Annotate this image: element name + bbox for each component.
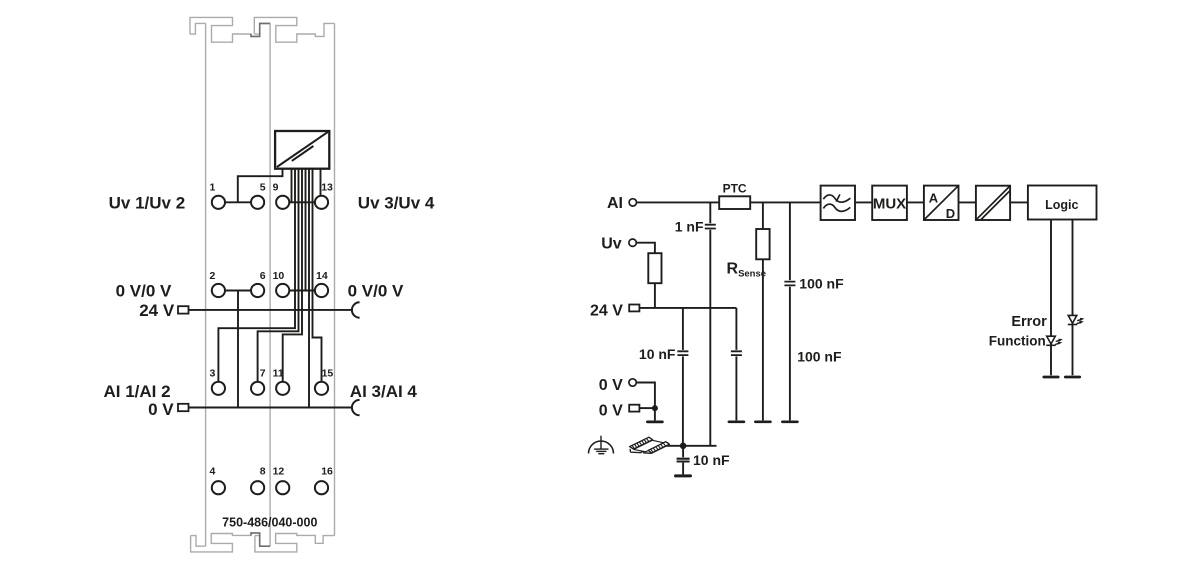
24V rail wire bbox=[189, 309, 352, 311]
svg-text:1: 1 bbox=[210, 182, 216, 194]
terminal 6 bbox=[251, 284, 264, 297]
wire earth junction to 10nF two bbox=[682, 446, 684, 457]
isolation box bbox=[976, 186, 1010, 220]
svg-text:12: 12 bbox=[273, 466, 285, 478]
node 1nF tap bbox=[709, 202, 711, 223]
svg-text:Uv 3/Uv 4: Uv 3/Uv 4 bbox=[358, 193, 435, 212]
wire terminal 9 to terminal 13 bbox=[290, 201, 315, 203]
svg-text:Uv: Uv bbox=[601, 236, 622, 253]
AD converter box bbox=[924, 186, 959, 220]
24V square terminal bbox=[178, 306, 189, 313]
isolation diagonal two bbox=[981, 191, 1010, 220]
terminal 5 bbox=[251, 196, 264, 209]
module housing left vertical edge bbox=[205, 23, 207, 546]
module housing right vertical edge bbox=[334, 23, 336, 535]
resistor R-Sense bbox=[756, 229, 769, 259]
module housing bottom profile left half bbox=[191, 533, 271, 552]
svg-text:100 nF: 100 nF bbox=[797, 349, 842, 365]
terminal 13 bbox=[315, 196, 328, 209]
terminal 14 bbox=[315, 284, 328, 297]
terminal 15 bbox=[315, 382, 328, 395]
ground bar 100nF two bbox=[729, 420, 744, 423]
0V bus continuation arc bbox=[352, 400, 360, 415]
wire Logic to Error LED bbox=[1072, 220, 1074, 376]
terminal 4 bbox=[212, 481, 225, 494]
terminal 3 bbox=[212, 382, 225, 395]
svg-text:AI 3/AI 4: AI 3/AI 4 bbox=[350, 382, 418, 401]
svg-text:15: 15 bbox=[322, 367, 334, 379]
terminal 2 bbox=[212, 284, 225, 297]
wire terminal 2 to terminal 6 bbox=[225, 290, 251, 292]
terminal 9 bbox=[276, 196, 289, 209]
Logic box bbox=[1028, 186, 1097, 220]
svg-text:Function: Function bbox=[989, 333, 1046, 348]
wire terminal 1 to terminal 5 bbox=[225, 201, 251, 203]
svg-text:D: D bbox=[946, 206, 955, 221]
wire 0V junction to ground bbox=[654, 408, 656, 420]
wire bundle line L6 to 0V rail bbox=[308, 169, 310, 408]
resistor R Uv bbox=[648, 253, 661, 283]
wire resistor to 24V rail bbox=[654, 283, 656, 308]
module housing middle vertical edge bbox=[269, 23, 271, 546]
terminal 7 bbox=[251, 382, 264, 395]
ground bar 0V bbox=[647, 421, 662, 424]
ground bar Error LED bbox=[1065, 376, 1079, 379]
terminal 12 bbox=[276, 481, 289, 494]
terminal 10 bbox=[276, 284, 289, 297]
wire PTC to filter bbox=[750, 201, 820, 203]
wire bundle line L5 to 0V row bbox=[305, 169, 307, 291]
svg-text:8: 8 bbox=[260, 466, 266, 478]
svg-text:0 V: 0 V bbox=[599, 403, 623, 420]
filter wave upper bbox=[823, 195, 850, 202]
functional earth symbol bbox=[589, 436, 614, 454]
svg-text:750-486/040-000: 750-486/040-000 bbox=[222, 516, 317, 530]
svg-text:AI: AI bbox=[607, 195, 623, 212]
24V bus continuation arc bbox=[352, 302, 360, 317]
capacitor 10 nF two plates bbox=[677, 459, 690, 462]
0V square terminal schematic bbox=[629, 405, 639, 412]
svg-text:Logic: Logic bbox=[1045, 198, 1078, 212]
wire bundle line L3 to terminal 7 bbox=[258, 169, 299, 382]
svg-text:24 V: 24 V bbox=[590, 302, 623, 319]
wire 10nF to junction bbox=[682, 356, 684, 445]
0V rail wire bbox=[189, 407, 352, 409]
24V square terminal schematic bbox=[629, 305, 639, 312]
terminal 11 bbox=[276, 382, 289, 395]
junction node 0V bbox=[652, 405, 658, 411]
module housing top profile right half bbox=[254, 17, 334, 42]
junction node earth bbox=[680, 443, 687, 450]
svg-text:2: 2 bbox=[210, 270, 216, 282]
svg-text:14: 14 bbox=[316, 270, 328, 282]
wire bundle line L4 to terminal 11 bbox=[283, 169, 302, 382]
AI input terminal circle bbox=[629, 199, 636, 206]
svg-text:5: 5 bbox=[260, 182, 266, 194]
isolation diagonal one bbox=[977, 187, 1010, 220]
capacitor 10 nF plates bbox=[677, 351, 688, 355]
wire 100nF branch one bbox=[789, 202, 791, 280]
wire 100nF two to ground bbox=[735, 356, 737, 420]
svg-text:100 nF: 100 nF bbox=[799, 276, 844, 292]
terminal 16 bbox=[315, 481, 328, 494]
wire terminal 10 to terminal 14 bbox=[290, 290, 315, 292]
terminal 1 bbox=[212, 196, 225, 209]
wire 10nF branch bbox=[682, 308, 684, 350]
svg-text:MUX: MUX bbox=[873, 195, 906, 212]
DIN rail symbol bbox=[630, 437, 670, 453]
wire 10nF two to ground bbox=[682, 463, 684, 475]
svg-text:16: 16 bbox=[321, 466, 333, 478]
filter wave lower bbox=[823, 204, 850, 211]
wire from U1 to terminals 1/5 bbox=[238, 169, 283, 202]
wire 0V circle to junction bbox=[636, 383, 655, 409]
wire 100nF one to ground bbox=[789, 287, 791, 421]
ground bar R-Sense bbox=[755, 420, 770, 423]
svg-text:0 V/0 V: 0 V/0 V bbox=[348, 282, 404, 301]
wire 100nF branch two bbox=[735, 308, 737, 350]
wire R-Sense branch top bbox=[762, 202, 764, 229]
module housing bottom profile right half bbox=[255, 534, 335, 552]
svg-text:10 nF: 10 nF bbox=[639, 346, 676, 362]
wire bundle line L1 to Uv row bbox=[291, 169, 293, 203]
wire 0V square to junction bbox=[639, 407, 655, 409]
wire isolation to Logic bbox=[1010, 201, 1028, 203]
svg-text:0 V: 0 V bbox=[599, 377, 623, 394]
svg-text:Uv 1/Uv 2: Uv 1/Uv 2 bbox=[109, 193, 186, 212]
wire Uv to resistor bbox=[636, 243, 655, 254]
svg-text:3: 3 bbox=[210, 367, 216, 379]
filter box bbox=[821, 186, 855, 220]
svg-text:A: A bbox=[929, 190, 939, 205]
capacitor 1 nF plates bbox=[705, 225, 716, 229]
svg-text:0 V/0 V: 0 V/0 V bbox=[116, 282, 172, 301]
AD converter diagonal bbox=[925, 186, 958, 219]
svg-text:AI 1/AI 2: AI 1/AI 2 bbox=[104, 382, 171, 401]
converter box U1 main diagonal bbox=[277, 132, 328, 167]
resistor PTC bbox=[719, 196, 750, 209]
terminal 8 bbox=[251, 481, 264, 494]
wire AD to isolation bbox=[959, 201, 976, 203]
0V input terminal circle bbox=[629, 379, 636, 386]
svg-text:Error: Error bbox=[1011, 314, 1047, 330]
24V rail wire schematic bbox=[639, 307, 736, 309]
module housing bottom middle overlap step bbox=[251, 533, 270, 546]
svg-text:24 V: 24 V bbox=[139, 301, 175, 320]
wire bundle line L7 to terminal 15 bbox=[313, 169, 322, 382]
svg-text:4: 4 bbox=[210, 466, 216, 478]
wire AI to PTC bbox=[637, 201, 720, 203]
module housing top middle overlap step bbox=[251, 23, 270, 36]
svg-text:13: 13 bbox=[321, 182, 333, 194]
ground bar 100nF one bbox=[782, 420, 797, 423]
wire filter to MUX bbox=[855, 201, 872, 203]
svg-text:6: 6 bbox=[260, 270, 266, 282]
svg-text:10 nF: 10 nF bbox=[693, 452, 730, 468]
converter box U1 short diagonal bbox=[292, 146, 314, 161]
svg-text:7: 7 bbox=[260, 367, 266, 379]
ground bar 10nF two bbox=[676, 474, 691, 477]
earth rail wire bbox=[666, 445, 717, 447]
wire 1nF to earth rail bbox=[709, 230, 711, 446]
LED Function symbol bbox=[1046, 336, 1062, 345]
wire from U1 to terminal 13 bbox=[320, 169, 322, 196]
filter wave strike bbox=[836, 194, 840, 201]
MUX box bbox=[872, 186, 907, 220]
wire MUX to AD bbox=[907, 201, 924, 203]
svg-text:1 nF: 1 nF bbox=[675, 218, 704, 234]
svg-text:10: 10 bbox=[273, 270, 285, 282]
svg-text:0 V: 0 V bbox=[148, 400, 174, 419]
ground bar Function LED bbox=[1044, 376, 1058, 379]
wire R-Sense to ground bbox=[762, 259, 764, 420]
converter box U1 bbox=[275, 131, 329, 169]
wire Logic to Function LED bbox=[1050, 220, 1052, 376]
module housing top profile left half bbox=[190, 17, 270, 42]
svg-text:PTC: PTC bbox=[723, 182, 747, 196]
wire 0V drop from terminals 2/6 to 0V rail bbox=[237, 291, 239, 408]
capacitor 100 nF one plates bbox=[784, 282, 795, 286]
svg-text:11: 11 bbox=[273, 367, 284, 379]
Uv input terminal circle bbox=[629, 239, 636, 246]
capacitor 100 nF two plates bbox=[731, 351, 742, 355]
wire bundle line L2 to terminal 3 bbox=[218, 169, 295, 382]
svg-text:RSense: RSense bbox=[727, 261, 767, 280]
LED Error symbol bbox=[1068, 315, 1084, 324]
0V square terminal bbox=[178, 404, 189, 411]
svg-text:9: 9 bbox=[273, 182, 279, 194]
